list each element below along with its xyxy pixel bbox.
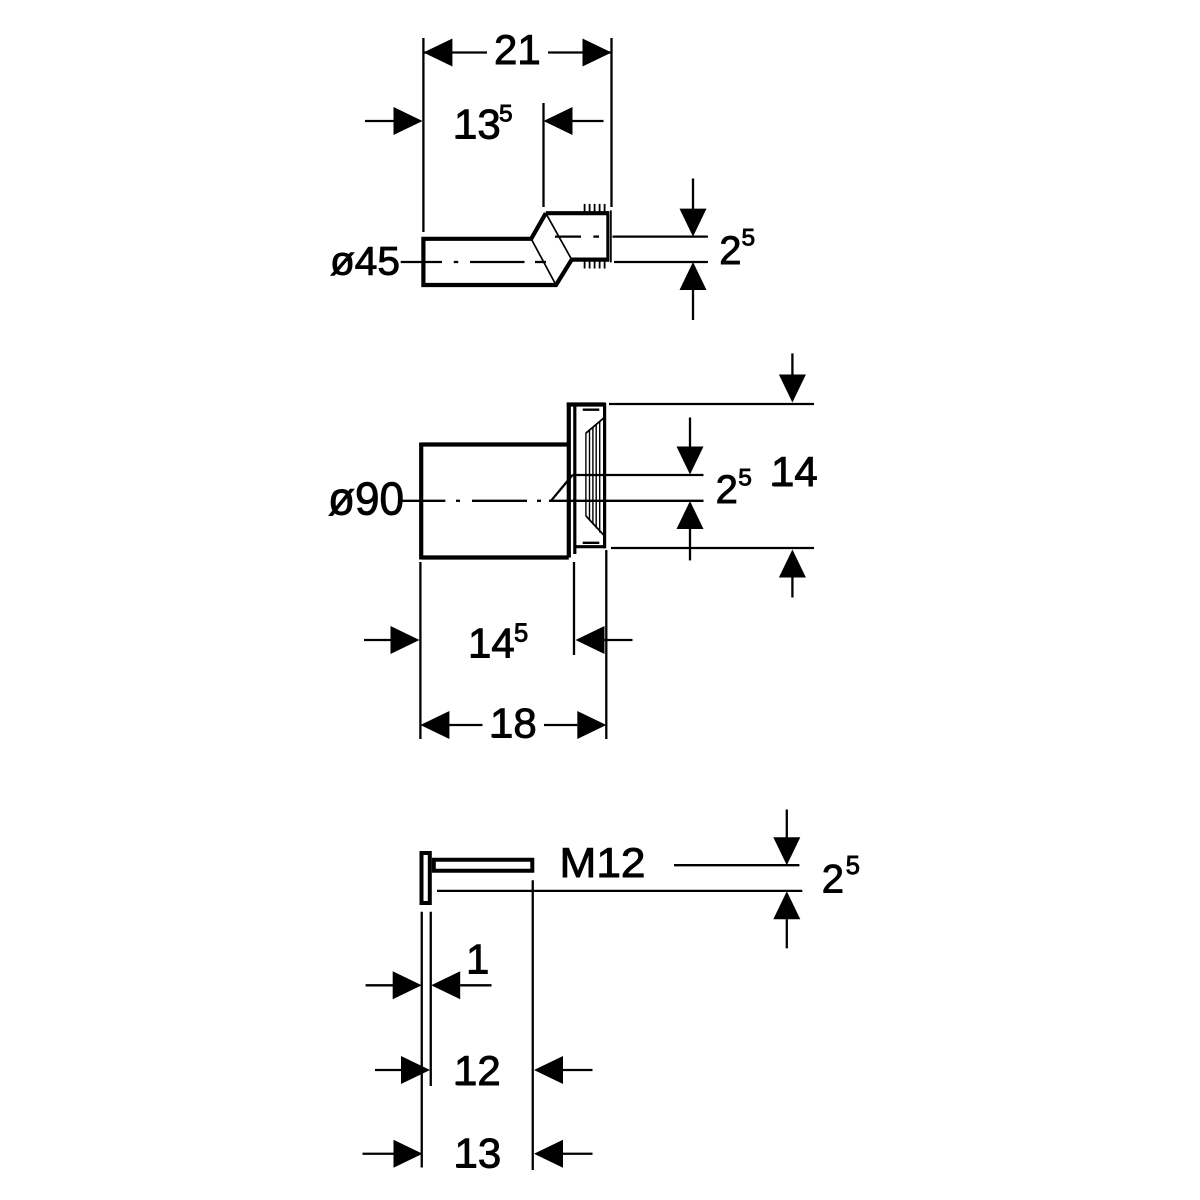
dimension 2^5 bottom reference lines xyxy=(437,865,802,891)
svg-text:2: 2 xyxy=(719,229,741,273)
centerline of upper socket section xyxy=(555,235,599,237)
extension line mid x=543.5 xyxy=(542,103,544,207)
socket ribs top xyxy=(585,204,605,213)
dimension 14 arrows xyxy=(779,353,806,597)
dimension 1 xyxy=(366,935,492,999)
centerline jog diagonal xyxy=(551,475,573,501)
svg-text:5: 5 xyxy=(514,620,528,648)
svg-text:13: 13 xyxy=(455,1130,502,1177)
label o45 with leader xyxy=(330,240,442,284)
svg-text:12: 12 xyxy=(454,1047,501,1094)
pipe P1 lower horizontal section xyxy=(423,213,571,285)
stud rod xyxy=(434,860,533,871)
grate slats xyxy=(586,422,600,533)
svg-text:5: 5 xyxy=(846,852,860,880)
dimension 13 xyxy=(363,1130,593,1177)
dimension 2^5 middle text xyxy=(716,464,752,512)
svg-text:2: 2 xyxy=(716,468,738,512)
grate insert caps xyxy=(583,410,600,543)
dimension 14 extension lines right xyxy=(609,404,814,548)
svg-text:M12: M12 xyxy=(560,839,646,886)
svg-text:18: 18 xyxy=(490,700,537,747)
svg-text:5: 5 xyxy=(499,101,513,128)
stud head plate xyxy=(422,853,430,903)
label o90 with leader xyxy=(328,472,445,524)
dimension 13^5 xyxy=(365,101,604,148)
dimension 21 xyxy=(423,26,611,73)
svg-text:ø45: ø45 xyxy=(330,240,400,284)
dimension 2^5 top drawing reference lines xyxy=(613,237,708,262)
centerline pipe P2 dash-dot xyxy=(456,500,569,502)
label M12 xyxy=(560,839,646,886)
dimension 12 xyxy=(375,1047,593,1094)
svg-text:13: 13 xyxy=(454,101,501,148)
svg-text:1: 1 xyxy=(466,935,489,982)
extension line right x=611.5 xyxy=(610,38,612,207)
extension line left x=423 xyxy=(422,38,424,232)
socket ribs bottom xyxy=(585,260,605,268)
flange axis line y=475 xyxy=(573,474,704,476)
svg-text:5: 5 xyxy=(742,225,756,252)
pipe axis extension right y=500.8 xyxy=(569,500,704,502)
elbow upper horizontal section with socket xyxy=(546,211,609,261)
dimension 2^5 top text xyxy=(719,225,755,273)
flange left face lines xyxy=(569,403,575,558)
extension lines below middle drawing xyxy=(419,562,421,739)
dimension 2^5 bottom arrows xyxy=(773,810,800,949)
svg-text:ø90: ø90 xyxy=(328,472,404,524)
pipe P2 body xyxy=(421,443,569,560)
dimension 18 xyxy=(420,700,606,747)
dimension 2^5 top arrows xyxy=(680,179,707,321)
dimension 14 text xyxy=(771,448,818,495)
dimension 14^5 xyxy=(364,620,633,667)
svg-text:5: 5 xyxy=(738,464,752,491)
centerline of lower pipe (dash-dot) xyxy=(454,261,546,263)
flange outline xyxy=(567,403,606,549)
dimension 2^5 bottom text xyxy=(822,852,860,902)
svg-text:21: 21 xyxy=(494,26,541,73)
svg-text:14: 14 xyxy=(468,620,515,667)
dimension 2^5 middle arrows xyxy=(677,418,704,561)
grate bevel diagonals xyxy=(586,417,605,536)
elbow miter joint lines xyxy=(531,213,572,285)
svg-text:14: 14 xyxy=(771,448,818,495)
svg-text:2: 2 xyxy=(822,858,844,902)
socket sealing lip xyxy=(610,210,612,262)
extension lines below stud xyxy=(421,912,423,1168)
